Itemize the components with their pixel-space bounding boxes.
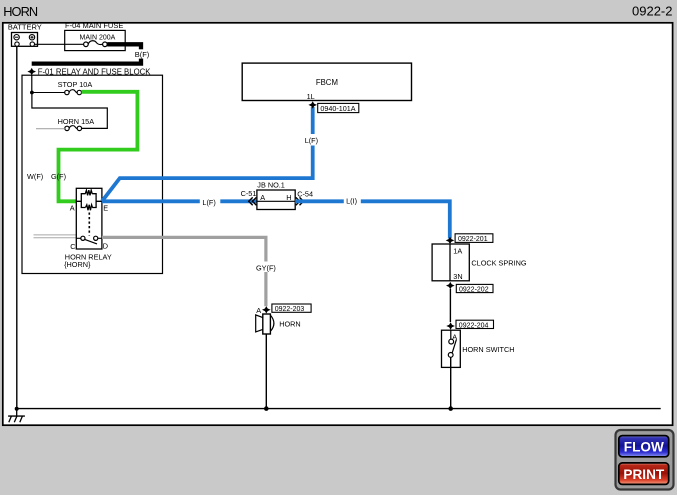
svg-text:MAIN 200A: MAIN 200A bbox=[80, 35, 116, 42]
svg-text:HORN: HORN bbox=[3, 4, 38, 19]
wire L(F) blue from FBCM to relay pin E bbox=[102, 107, 313, 201]
svg-text:W(F): W(F) bbox=[27, 172, 43, 181]
node junction dot bbox=[30, 91, 34, 95]
fuse HORN 15A bbox=[58, 117, 95, 131]
node junction dot horn ground bbox=[264, 406, 269, 411]
svg-text:PRINT: PRINT bbox=[623, 467, 664, 482]
svg-text:L(I): L(I) bbox=[346, 196, 357, 205]
svg-text:1A: 1A bbox=[453, 246, 462, 255]
svg-text:HORN 15A: HORN 15A bbox=[58, 117, 95, 126]
switch S1 HORN SWITCH bbox=[442, 330, 461, 408]
node junction dot horn switch ground bbox=[448, 406, 453, 411]
svg-text:D: D bbox=[103, 242, 108, 251]
svg-text:0922-2: 0922-2 bbox=[632, 4, 672, 19]
connector 0940-101A at FBCM pin 1L bbox=[308, 101, 358, 113]
svg-text:C: C bbox=[70, 242, 75, 251]
connector C-51 bbox=[241, 189, 257, 205]
module FBCM bbox=[242, 63, 411, 101]
button FLOW bbox=[619, 436, 669, 457]
connector 0922-202 bbox=[446, 282, 493, 294]
relay K1 HORN RELAY bbox=[76, 188, 102, 249]
wire battery negative down to ground bbox=[16, 46, 18, 408]
battery B1 bbox=[8, 23, 42, 47]
wire horn to ground bbox=[265, 334, 267, 409]
label B(F) bbox=[134, 49, 151, 59]
svg-text:G(F): G(F) bbox=[51, 172, 66, 181]
wire L(I) blue JB to clock spring bbox=[295, 201, 450, 238]
connector 0922-203 bbox=[256, 304, 311, 315]
svg-text:JB NO.1: JB NO.1 bbox=[257, 181, 285, 190]
svg-text:HORN: HORN bbox=[279, 319, 301, 328]
wire G(F) green from STOP fuse to relay pin A bbox=[59, 92, 138, 202]
svg-text:0940-101A: 0940-101A bbox=[320, 104, 355, 113]
svg-text:FBCM: FBCM bbox=[316, 78, 338, 87]
wire B(F) thick battery feed bbox=[32, 44, 141, 63]
wire L(F) blue relay pin E to JB bbox=[102, 199, 257, 203]
svg-text:L(F): L(F) bbox=[305, 136, 318, 145]
label L(I) bbox=[344, 196, 361, 207]
wire to HORN fuse bbox=[32, 93, 107, 129]
button PRINT bbox=[619, 463, 669, 485]
svg-text:C-51: C-51 bbox=[241, 189, 257, 198]
svg-text:CLOCK SPRING: CLOCK SPRING bbox=[471, 258, 526, 267]
node junction dot battery ground bbox=[15, 407, 19, 411]
svg-text:A: A bbox=[70, 203, 75, 212]
connector junction into relay block bbox=[27, 68, 36, 75]
svg-text:FLOW: FLOW bbox=[624, 439, 664, 454]
svg-text:GY(F): GY(F) bbox=[256, 263, 276, 272]
svg-text:B(F): B(F) bbox=[135, 50, 150, 59]
svg-text:BATTERY: BATTERY bbox=[8, 23, 42, 32]
svg-text:0922-202: 0922-202 bbox=[459, 286, 489, 293]
svg-text:E: E bbox=[103, 203, 108, 212]
svg-text:3N: 3N bbox=[453, 272, 462, 281]
button panel bbox=[616, 430, 674, 490]
svg-text:STOP 10A: STOP 10A bbox=[58, 80, 93, 89]
horn H1 (speaker symbol) bbox=[256, 314, 274, 334]
fuse F-04 MAIN FUSE (MAIN 200A) bbox=[65, 21, 126, 50]
wire battery positive to main fuse bbox=[35, 43, 84, 45]
svg-text:1L: 1L bbox=[307, 92, 315, 101]
svg-text:0922-201: 0922-201 bbox=[458, 236, 488, 243]
wire to STOP fuse bbox=[32, 92, 65, 94]
svg-text:HORN SWITCH: HORN SWITCH bbox=[462, 345, 514, 354]
ground bus wire bbox=[17, 408, 661, 410]
wire W(F) stub from HORN fuse bbox=[36, 128, 65, 130]
ground symbol bbox=[8, 409, 25, 423]
junction block JB NO.1 bbox=[257, 181, 295, 210]
svg-text:H: H bbox=[286, 193, 291, 202]
relay and fuse block F-01 bbox=[22, 67, 163, 273]
fuse STOP 10A bbox=[58, 80, 93, 95]
connector 0922-201 bbox=[446, 234, 493, 244]
wire GY(F) gray relay pin D to horn bbox=[102, 237, 266, 306]
svg-text:A: A bbox=[260, 193, 265, 202]
wire clock spring to horn switch bbox=[449, 289, 451, 322]
wire block feed down bbox=[31, 75, 33, 93]
label L(F) horizontal wire bbox=[200, 196, 221, 207]
svg-text:F-04 MAIN FUSE: F-04 MAIN FUSE bbox=[65, 21, 123, 30]
svg-text:A: A bbox=[256, 306, 261, 315]
label L(F) vertical wire bbox=[303, 134, 322, 146]
svg-text:0922-204: 0922-204 bbox=[459, 322, 489, 329]
svg-text:0922-203: 0922-203 bbox=[275, 306, 305, 313]
label GY(F) bbox=[255, 262, 278, 273]
svg-text:{HORN}: {HORN} bbox=[64, 260, 91, 269]
svg-text:C-54: C-54 bbox=[297, 189, 313, 198]
connector C-54 bbox=[296, 189, 313, 205]
clock spring CS1 bbox=[432, 244, 469, 281]
wire W(F) double stub to relay pin C bbox=[34, 234, 77, 236]
connector 0922-204 bbox=[446, 320, 493, 329]
svg-text:L(F): L(F) bbox=[202, 198, 215, 207]
